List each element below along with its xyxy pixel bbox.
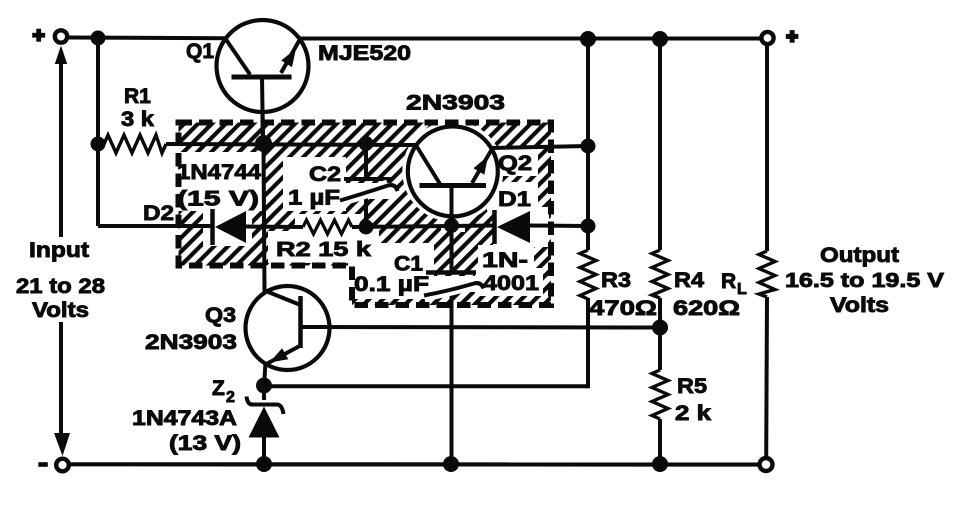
output labels (785, 244, 945, 317)
svg-text:D1: D1 (498, 188, 531, 211)
svg-text:1N4744: 1N4744 (177, 161, 261, 184)
wire: input + branch vertical (96, 38, 100, 226)
terminal: output + (761, 30, 798, 44)
wire: top rail right (299, 37, 761, 41)
input labels (16, 239, 105, 322)
svg-text:16.5 to 19.5 V: 16.5 to 19.5 V (785, 270, 945, 292)
node: row B right bus (581, 219, 596, 234)
wire: RL leads (764, 45, 769, 459)
svg-text:L: L (737, 281, 747, 298)
node: Q2 base row B (444, 218, 459, 233)
resistor RL (load) (721, 251, 775, 298)
svg-text:(15 V): (15 V) (177, 188, 259, 211)
svg-text:R5: R5 (677, 374, 707, 398)
wire: bottom rail (70, 462, 759, 466)
terminal: input - (38, 459, 69, 472)
node: bottom rail Z2 (256, 456, 272, 472)
node: top rail x660 (652, 31, 668, 47)
node: C2 top (359, 136, 374, 151)
wire: row B D2 to D1 (246, 226, 494, 228)
svg-text:R2 15 k: R2 15 k (276, 238, 372, 261)
resistor R4 (652, 250, 740, 320)
svg-text:21 to 28: 21 to 28 (16, 275, 105, 298)
svg-text:Input: Input (29, 239, 89, 262)
wire: row A (R1 to Q2 collector) (166, 144, 416, 145)
svg-text:4001: 4001 (483, 272, 539, 295)
svg-text:R: R (721, 270, 736, 293)
zener Z2 (1N4743A) (132, 377, 284, 464)
svg-text:Z: Z (212, 377, 225, 400)
svg-text:C2: C2 (309, 163, 341, 186)
wire: top rail left (69, 36, 226, 41)
svg-text:Q2: Q2 (498, 152, 532, 175)
svg-text:R3: R3 (601, 268, 631, 292)
wire: Q2 base / C1 leads (450, 186, 454, 464)
node: top rail x588 (580, 31, 596, 47)
svg-text:0.1 µF: 0.1 µF (354, 273, 429, 296)
node: Q3 emitter / Z2 (256, 378, 272, 394)
wire: row B D1 to right bus (530, 224, 588, 229)
svg-text:Q1: Q1 (186, 40, 214, 63)
wire: Q3 base to divider (301, 325, 656, 330)
svg-text:Output: Output (820, 244, 899, 267)
diode D2 (1N4744 zener) (143, 161, 261, 245)
svg-text:1N4743A: 1N4743A (132, 407, 237, 430)
svg-text:2N3903: 2N3903 (406, 92, 505, 115)
svg-text:620Ω: 620Ω (673, 297, 740, 320)
svg-text:R4: R4 (674, 268, 704, 292)
node: bottom rail C1 (443, 456, 459, 472)
transistor Q3 (145, 286, 330, 386)
terminal: output bottom (760, 458, 773, 471)
resistor R1 (104, 85, 166, 153)
svg-text:1N-: 1N- (482, 249, 528, 272)
node: bottom rail R5 (652, 456, 668, 472)
svg-text:D2: D2 (143, 202, 174, 225)
capacitor C1 (354, 253, 484, 297)
node: C2 bottom (359, 220, 374, 235)
node: top rail input junction (91, 31, 106, 46)
wire: Q2 emitter to right bus (490, 146, 588, 148)
svg-text:3 k: 3 k (121, 108, 154, 131)
svg-text:470Ω: 470Ω (589, 297, 657, 320)
resistor R3 (580, 250, 657, 320)
svg-text:1 µF: 1 µF (288, 187, 340, 210)
svg-text:2: 2 (226, 389, 235, 406)
resistor R2 (276, 220, 372, 261)
node: R1 left (91, 137, 106, 152)
svg-text:Volts: Volts (830, 294, 889, 317)
terminal: input + (32, 29, 67, 43)
wire: row B left stub to D2 (98, 224, 211, 228)
transistor Q1 (186, 20, 411, 143)
svg-text:Volts: Volts (32, 299, 89, 322)
wire: C2 leads (364, 144, 368, 227)
transistor Q2 (406, 92, 532, 217)
wire: right bus vertical x588 (586, 39, 590, 388)
shaded module box (hatched) (177, 121, 551, 305)
node: R4/R5 divider (652, 320, 668, 336)
resistor R5 (652, 370, 711, 425)
svg-text:2 k: 2 k (675, 402, 711, 425)
svg-text:2N3903: 2N3903 (145, 331, 237, 354)
node: Q1 base / row A (255, 135, 272, 152)
capacitor C2 (288, 163, 398, 210)
node: Q2 emitter bus (581, 139, 596, 154)
wire: Q1 base down to Q3 collector (262, 77, 265, 292)
diode D1 (1N4001) (482, 188, 539, 295)
svg-text:Q3: Q3 (205, 304, 236, 327)
svg-text:(13 V): (13 V) (169, 432, 241, 455)
wire: R5 leads (658, 328, 662, 465)
wire: R4 branch vertical (658, 39, 662, 328)
wire: Z2 node to R3 bottom (264, 384, 588, 388)
input polarity indicator arrows (54, 46, 70, 457)
svg-text:R1: R1 (124, 85, 151, 108)
svg-text:MJE520: MJE520 (318, 42, 411, 65)
